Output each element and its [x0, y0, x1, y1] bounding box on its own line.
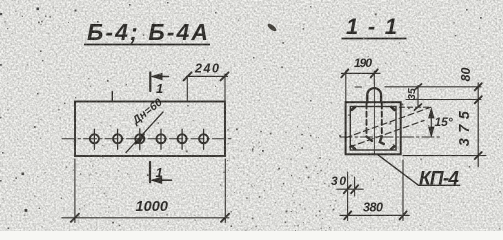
section horizontal centerline	[340, 136, 441, 138]
lifting loop КП-4	[367, 88, 381, 102]
box bottom extension to right dim	[403, 155, 486, 157]
dimension 1000 tick left	[71, 214, 79, 222]
title left underline	[84, 44, 210, 46]
dimension 380 tick left	[344, 211, 351, 219]
hole 2	[113, 134, 122, 143]
dimension 1000 line	[62, 217, 229, 219]
section box outer square	[346, 102, 401, 154]
section mark bottom: cut line	[149, 162, 151, 182]
section mark top arrow	[153, 76, 169, 78]
leader line for hole diameter label	[126, 112, 163, 153]
vertical dimension line 80/375	[477, 83, 479, 167]
diagonal hidden line lower	[350, 121, 425, 148]
diagonal hidden line upper	[346, 107, 431, 138]
dimension 240 line	[187, 75, 228, 77]
dimension 190 extension right	[373, 71, 375, 84]
dimension 380 extension right	[402, 160, 404, 221]
corner weld mark bottom-left	[352, 146, 355, 149]
dimension 1000 tick right	[221, 214, 229, 222]
box vertical centerline	[373, 82, 375, 156]
hole 5	[178, 134, 187, 143]
dimension 1000 extension right	[224, 159, 226, 223]
section mark top: cut line	[149, 73, 151, 92]
dimension 240 extension left	[186, 76, 188, 100]
dimension 380 extension left	[347, 172, 349, 221]
corner weld mark top-left	[352, 107, 355, 110]
plate horizontal centerline	[62, 138, 234, 140]
dimension 240 tick left	[184, 72, 192, 80]
dimension 35 tick bottom	[415, 104, 422, 110]
dimension 35 line	[417, 86, 419, 108]
loop right leg hidden line	[381, 104, 383, 137]
hole 1	[90, 134, 99, 143]
hidden line right of box top	[400, 106, 430, 108]
dimension 240 extension right	[224, 74, 226, 101]
hole 3	[135, 134, 144, 143]
dimension 190 extension left	[345, 71, 347, 102]
dimension 190 tick left	[341, 69, 348, 77]
leader arrowhead	[135, 134, 145, 145]
dimension 190 tick right	[371, 69, 378, 77]
loop top extension dash left	[355, 86, 362, 88]
dimension 35 tick top	[415, 84, 422, 90]
dimension 30 line	[337, 188, 363, 190]
hole 4	[157, 134, 166, 143]
dimension 190 line	[342, 72, 381, 74]
leader line to КП-4	[378, 155, 460, 186]
dimension 30 tick left	[344, 185, 351, 193]
angle 15 double arrow	[430, 111, 432, 135]
hole 6	[199, 134, 208, 143]
dimension 30 tick right	[351, 185, 358, 193]
title right underline	[342, 38, 407, 40]
tick at 375 bottom	[475, 152, 482, 159]
dimension 30 extension right	[354, 177, 356, 196]
tick at 80/375	[475, 96, 482, 103]
tick at 80 top	[475, 83, 482, 90]
section mark bottom arrow	[153, 179, 172, 181]
section box inner square	[350, 107, 396, 151]
dimension 240 tick right	[221, 72, 229, 80]
corner weld mark bottom-right	[391, 146, 394, 149]
loop left leg hidden line	[366, 104, 368, 137]
small tick above plate	[111, 91, 113, 101]
box top extension to right dim	[406, 99, 481, 101]
dimension 1000 extension left	[74, 159, 76, 223]
corner weld mark top-right	[391, 107, 394, 110]
dimension 380 tick right	[400, 211, 407, 219]
loop top extension line	[385, 86, 481, 88]
plate outline Б-4	[75, 102, 225, 157]
dimension 380 line	[340, 214, 409, 216]
